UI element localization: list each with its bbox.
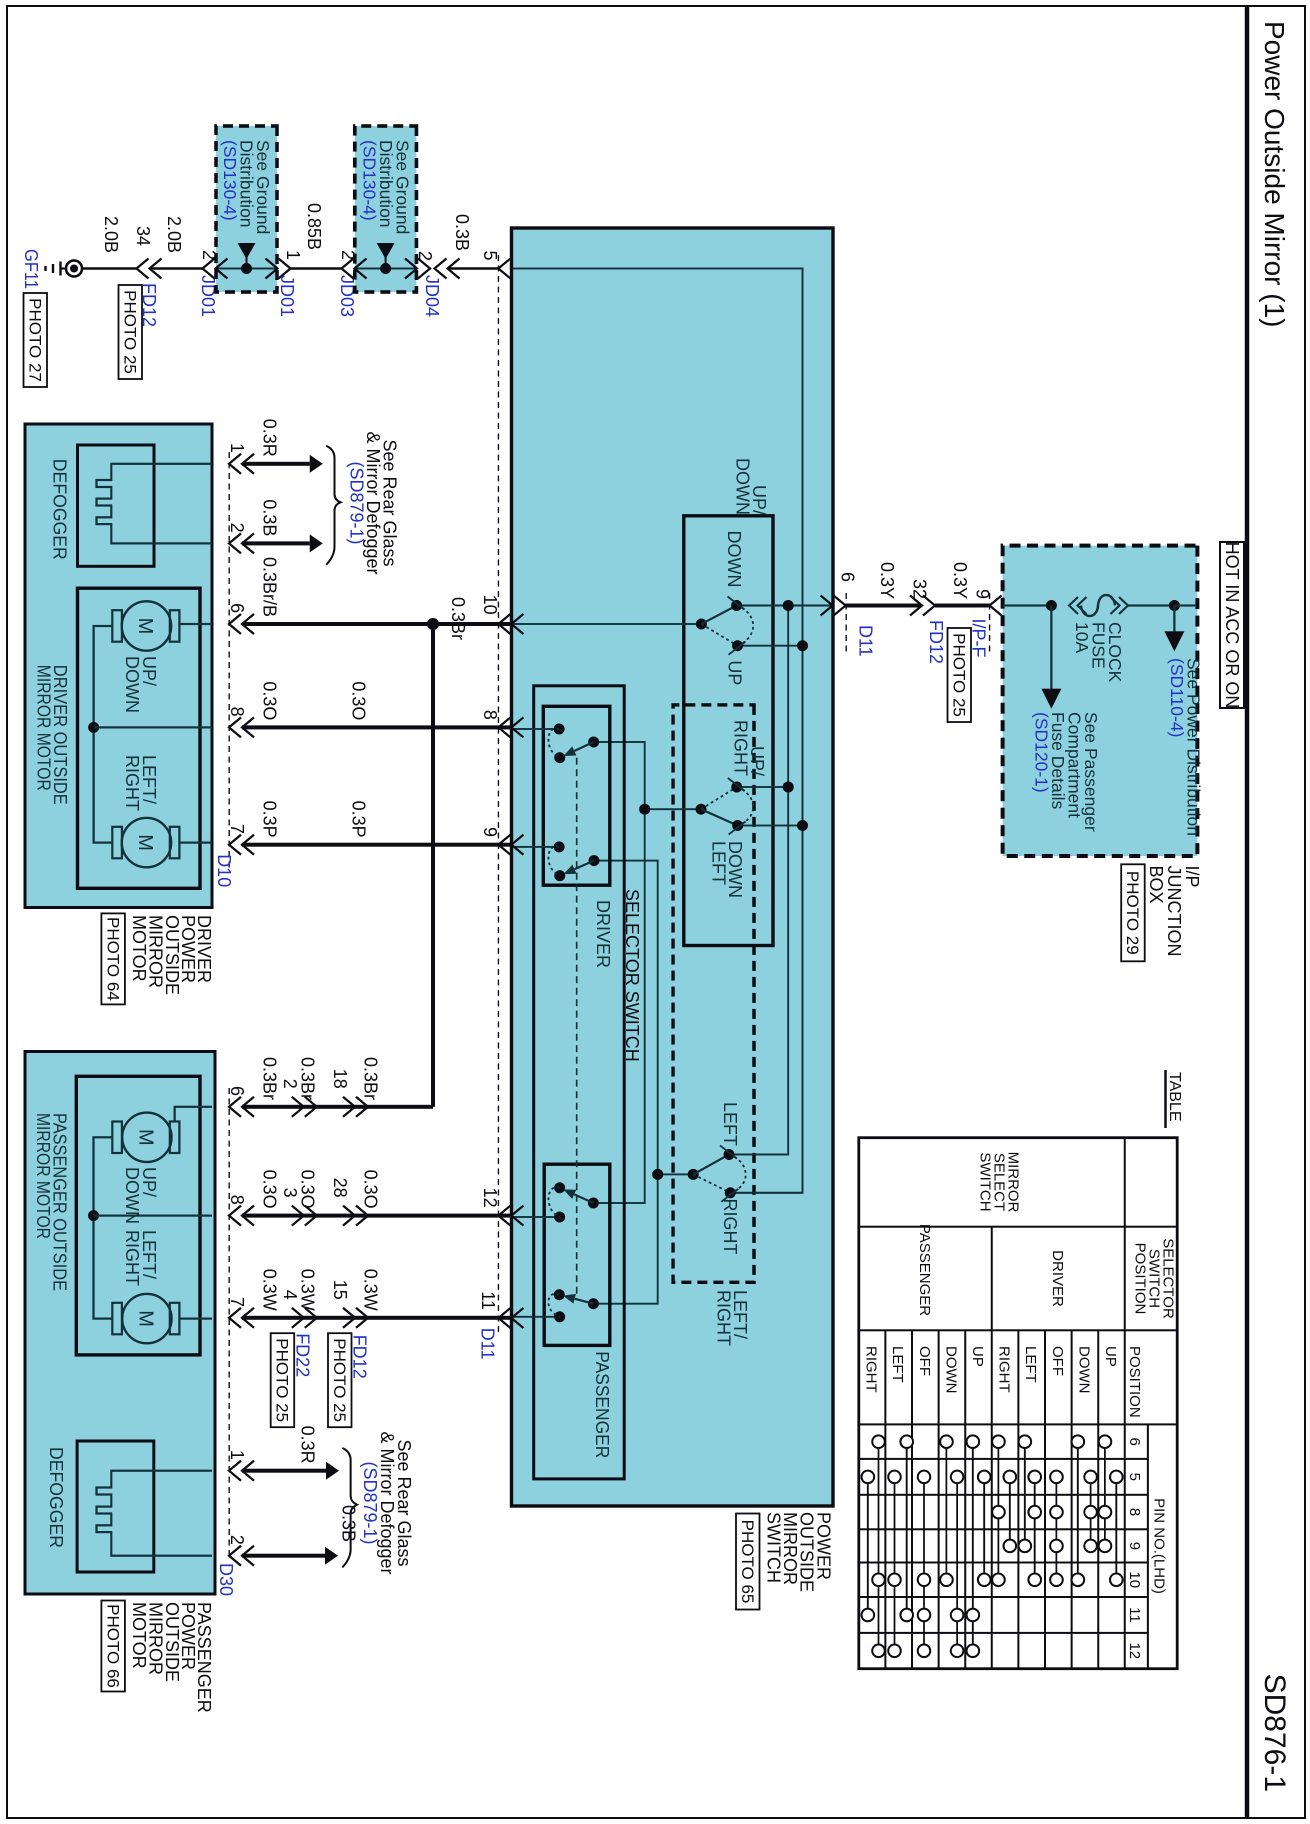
svg-text:PHOTO 25: PHOTO 25 (330, 1338, 349, 1422)
svg-text:D11: D11 (855, 625, 875, 657)
S3 blade solid to LEFT (693, 1155, 729, 1175)
UP contact (732, 640, 743, 651)
DRIVER selector box (543, 706, 610, 885)
svg-text:LEFT: LEFT (720, 1102, 740, 1146)
svg-text:RIGHT: RIGHT (122, 1230, 142, 1286)
svg-text:RIGHT: RIGHT (996, 1346, 1013, 1393)
svg-text:0.3Br/B: 0.3Br/B (260, 557, 280, 617)
svg-text:12: 12 (1126, 1642, 1143, 1659)
passenger left/right motor M (122, 1294, 171, 1343)
svg-text:0.3W: 0.3W (361, 1269, 381, 1311)
label box PHOTO 64 (driver motor) (101, 913, 125, 1004)
svg-text:6: 6 (837, 572, 857, 582)
S3 pole riser to rail B (658, 1173, 694, 1175)
switch pin 9 chevrons (498, 835, 523, 855)
svg-text:Power Outside Mirror (1): Power Outside Mirror (1) (1259, 21, 1290, 328)
svg-text:2.0B: 2.0B (101, 216, 121, 253)
S2 blade solid (701, 809, 738, 825)
wire 0.3Br/B driver pin 6 to junction (242, 622, 433, 626)
svg-text:34: 34 (133, 226, 153, 246)
dashed line at I/P-F pin (989, 593, 991, 655)
svg-text:FD12: FD12 (926, 620, 946, 664)
passenger motor common wire (94, 1137, 113, 1318)
label box PHOTO 25 (FD12 ground chain) (119, 285, 143, 379)
svg-text:See Rear Glass: See Rear Glass (394, 1439, 414, 1566)
svg-text:2: 2 (227, 523, 247, 533)
svg-text:2: 2 (415, 251, 435, 261)
svg-text:LEFT/: LEFT/ (139, 755, 159, 804)
dashed connector face (passenger motor) (228, 1088, 230, 1558)
JD03 arrow to junction (377, 243, 395, 259)
wire 0.3O passenger pin 8 to switch pin 12 (242, 1214, 511, 1218)
FD22 connector pin 3 (292, 1206, 317, 1226)
JD01 pin 1 chevrons (top edge) (266, 259, 291, 279)
UP/DOWN switch pole (696, 619, 707, 630)
svg-text:OFF: OFF (916, 1346, 933, 1376)
svg-text:HOT IN ACC OR ON: HOT IN ACC OR ON (1222, 542, 1242, 709)
passenger selector group2 wire to pin 11 (513, 1316, 560, 1318)
UP/DOWN dotted blade to UP (701, 624, 737, 646)
switch pin 6 chevrons (top) (821, 596, 846, 616)
wire 0.3R passenger defogger pin 1 (242, 1469, 326, 1473)
wire 0.3W passenger pin 7 to switch pin 11 (242, 1316, 511, 1320)
svg-text:LEFT: LEFT (1022, 1346, 1039, 1383)
JD01 arrow to junction (238, 243, 256, 259)
passenger motor pin 8 chevrons (229, 1206, 254, 1226)
wire 0.3Y FD12 to I/P-F (935, 604, 990, 608)
arrow line see passenger compartment (1050, 606, 1052, 693)
svg-text:TABLE: TABLE (1166, 1072, 1183, 1122)
svg-text:0.3O: 0.3O (298, 1170, 318, 1209)
passenger motor box (76, 1076, 200, 1355)
arrow line see power distribution (1173, 606, 1175, 636)
svg-text:15: 15 (330, 1280, 350, 1300)
junction dot S2 pole x rail A (639, 804, 650, 815)
svg-text:0.3P: 0.3P (348, 801, 368, 838)
svg-text:PHOTO 66: PHOTO 66 (103, 1604, 122, 1688)
driver up/down motor M (122, 601, 171, 650)
brace see rear glass (driver) (326, 446, 340, 565)
svg-text:1: 1 (227, 1450, 247, 1460)
svg-text:D11: D11 (478, 1328, 498, 1360)
junction dot to fuse details arrow (1046, 600, 1057, 611)
svg-text:8: 8 (1126, 1508, 1143, 1516)
driver selector group1 contacts and blade (554, 724, 565, 735)
passenger defogger pin 1 chevrons (229, 1461, 254, 1481)
svg-text:0.3Br: 0.3Br (298, 1057, 318, 1100)
S2 pole (696, 804, 707, 815)
I/P box internal wire from pin 9 (1003, 604, 1052, 606)
label box PHOTO 29 (1121, 864, 1145, 961)
driver selector group2 wire to pin 9 (513, 846, 559, 848)
joint connector JD03 box (355, 126, 417, 292)
driver motor box (78, 588, 201, 888)
svg-text:2.0B: 2.0B (164, 216, 184, 253)
driver pin 7 internal wire (179, 841, 212, 843)
svg-text:JUNCTION: JUNCTION (1164, 866, 1184, 957)
passenger up/down motor M (122, 1113, 171, 1162)
svg-text:M: M (134, 834, 156, 851)
svg-text:PHOTO 65: PHOTO 65 (738, 1520, 757, 1604)
svg-text:JD01: JD01 (198, 275, 218, 317)
label box HOT IN ACC OR ON (1220, 542, 1244, 708)
FD12 connector pin 28 (343, 1206, 368, 1226)
driver defogger pin 2 chevrons (229, 533, 254, 553)
svg-text:JD01: JD01 (277, 275, 297, 317)
driver motor junction dot (88, 722, 99, 733)
rail from pin 6 (power rail) (730, 606, 788, 1155)
passenger motor junction dot (88, 1210, 99, 1221)
svg-text:PASSENGER: PASSENGER (916, 1224, 933, 1316)
passenger selector group1 wire to pin 12 (513, 1216, 560, 1218)
passenger selector group2 contacts and blade (554, 1289, 565, 1300)
S3 travel arc (729, 1155, 746, 1193)
junction dot S2 left-contact x ground rail (797, 820, 808, 831)
SELECTOR SWITCH outer box (534, 686, 625, 1479)
driver selector group2 contacts and blade (554, 841, 565, 852)
pin 10 riser to UP/DOWN pole (513, 623, 701, 625)
svg-text:(SD130-4): (SD130-4) (360, 140, 380, 221)
svg-text:DOWN: DOWN (942, 1346, 959, 1394)
wire 0.3Br passenger pin 6 (242, 1105, 433, 1109)
table column line C2/C3 (859, 1329, 1177, 1331)
svg-text:0.3Y: 0.3Y (877, 562, 897, 599)
svg-text:PASSENGER: PASSENGER (592, 1351, 612, 1458)
svg-text:DOWN: DOWN (1075, 1346, 1092, 1394)
svg-text:POSITION: POSITION (1126, 1346, 1143, 1418)
label box PHOTO 25 (FD12 passenger) (328, 1333, 352, 1427)
junction dot pin6 x power rail (783, 600, 794, 611)
junction dot UP riser x ground rail (797, 640, 808, 651)
switch pin 12 chevrons (498, 1206, 523, 1226)
connector JD04 on ground chain (435, 259, 460, 279)
switch pin 11 chevrons (498, 1308, 523, 1328)
dashed connector face (driver motor) (228, 452, 230, 868)
svg-text:0.3W: 0.3W (298, 1269, 318, 1311)
svg-text:M: M (134, 1129, 156, 1146)
svg-text:9: 9 (1126, 1542, 1143, 1550)
DRIVER OUTSIDE MIRROR MOTOR cyan box (25, 424, 212, 908)
svg-text:6: 6 (1126, 1437, 1143, 1445)
JD03 pin 2 chevrons (bottom edge) (342, 259, 367, 279)
wire 0.3Y switch pin 6 to FD12 (845, 604, 922, 608)
svg-text:0.3R: 0.3R (298, 1426, 318, 1464)
table pin no header line (1147, 1424, 1149, 1668)
svg-text:FD12: FD12 (350, 1335, 370, 1379)
wire 0.3B JD04 to switch pin 5 (448, 267, 499, 270)
ground symbol GF11 (66, 261, 82, 277)
svg-text:D30: D30 (216, 1563, 236, 1596)
label box PHOTO 66 (101, 1601, 125, 1692)
svg-text:DRIVER: DRIVER (593, 900, 613, 968)
label box PHOTO 25 (FD12 power) (948, 628, 972, 722)
svg-text:DEFOGGER: DEFOGGER (49, 459, 69, 560)
rail A (left/right pole rail) (595, 742, 645, 1203)
svg-text:PHOTO 25: PHOTO 25 (121, 290, 140, 374)
svg-text:LEFT: LEFT (889, 1346, 906, 1383)
svg-text:7: 7 (227, 1297, 247, 1307)
label box PHOTO 65 (736, 1514, 760, 1610)
svg-text:I/P-F: I/P-F (969, 619, 989, 658)
passenger defogger element (97, 1471, 213, 1556)
svg-text:POSITION: POSITION (1132, 1243, 1149, 1315)
svg-text:DOWN: DOWN (122, 656, 142, 713)
svg-text:10: 10 (1126, 1571, 1143, 1588)
mirror select switch table frame (859, 1138, 1177, 1669)
S2 pole riser to rail A (645, 808, 701, 810)
svg-text:11: 11 (478, 1291, 498, 1310)
svg-text:6: 6 (227, 603, 247, 613)
table pin area left line (859, 1423, 1177, 1425)
svg-text:RIGHT: RIGHT (720, 1199, 740, 1255)
svg-text:0.3B: 0.3B (338, 1505, 358, 1542)
I/P box wire to power distribution junction (1128, 604, 1174, 606)
PASSENGER selector box (544, 1164, 610, 1345)
svg-text:(SD120-1): (SD120-1) (1032, 712, 1052, 793)
driver motor common wire (94, 626, 113, 843)
svg-text:I/P: I/P (1182, 866, 1202, 888)
svg-text:0.3Br: 0.3Br (448, 597, 468, 640)
svg-text:GF11: GF11 (21, 249, 41, 289)
wire 0.3P driver pin 7 to switch pin 9 (242, 843, 511, 847)
FD22 connector pin 4 (292, 1308, 317, 1328)
svg-text:10A: 10A (1072, 622, 1092, 653)
svg-text:11: 11 (1126, 1607, 1143, 1623)
svg-text:0.3O: 0.3O (361, 1170, 381, 1209)
rail from pin 5 (ground rail) (513, 269, 803, 1193)
svg-text:DRIVER: DRIVER (1049, 1250, 1066, 1307)
switch pin 8 chevrons (498, 717, 523, 737)
svg-text:LEFT: LEFT (709, 841, 729, 885)
JD03 top edge chevrons (405, 259, 430, 279)
driver DEFOGGER sub-box (78, 445, 155, 566)
JD01 internal wire and junction dot (216, 268, 277, 270)
driver defogger pin 1 chevrons (229, 454, 254, 474)
svg-text:1: 1 (227, 443, 247, 453)
svg-text:D10: D10 (214, 854, 234, 887)
table column line C1/C2 (859, 1226, 1177, 1228)
junction dot S2 right-contact x power rail (783, 782, 794, 793)
label box PHOTO 27 (24, 293, 48, 387)
S2 DOWN-LEFT contact riser (738, 825, 803, 827)
wire 2.0B to JD01 (150, 267, 203, 270)
POWER OUTSIDE MIRROR SWITCH box (512, 228, 834, 1506)
svg-text:0.3O: 0.3O (348, 681, 368, 720)
svg-text:0.3R: 0.3R (260, 419, 280, 457)
svg-text:8: 8 (480, 710, 500, 720)
rail B (second pole rail) (595, 861, 658, 1304)
JD01 pin 2 chevrons (bottom edge) (203, 259, 228, 279)
svg-text:UP: UP (1102, 1346, 1119, 1367)
driver left/right motor M (122, 818, 171, 867)
junction dot S3 pole x rail B (652, 1169, 663, 1180)
svg-text:0.3O: 0.3O (260, 1170, 280, 1209)
UP contact riser (738, 645, 803, 647)
passenger pin 8 internal wire (94, 1214, 213, 1216)
FD12 connector pin 32 (910, 596, 935, 616)
S3 pole (688, 1169, 699, 1180)
driver motor pin 8 chevrons (229, 717, 254, 737)
svg-text:0.3Y: 0.3Y (950, 562, 970, 599)
svg-text:0.85B: 0.85B (304, 203, 324, 250)
table pin column lines (859, 1458, 1148, 1460)
svg-text:0.3Br: 0.3Br (361, 1057, 381, 1100)
S3 dotted blade to RIGHT (693, 1174, 730, 1192)
svg-text:PHOTO 25: PHOTO 25 (950, 633, 969, 717)
S3 RIGHT contact riser (730, 1192, 802, 1194)
svg-text:M: M (134, 1310, 156, 1327)
svg-text:DOWN: DOWN (724, 531, 744, 588)
driver defogger element (97, 464, 213, 544)
svg-text:MOTOR: MOTOR (129, 915, 149, 982)
fuse-side chevrons above fuse (1111, 597, 1129, 614)
connector FD12 (pin 34) on ground chain (137, 259, 162, 279)
wire driver pin6 junction to switch pin 10 (433, 622, 511, 626)
driver pin 8 internal wire (94, 726, 212, 728)
svg-text:9: 9 (480, 827, 500, 837)
svg-text:MIRROR MOTOR: MIRROR MOTOR (33, 1113, 53, 1239)
svg-text:DOWN: DOWN (733, 458, 753, 515)
passenger DEFOGGER sub-box (77, 1441, 154, 1572)
svg-text:(SD879-1): (SD879-1) (360, 1461, 380, 1544)
svg-text:RIGHT: RIGHT (122, 755, 142, 811)
wire 0.85B JD01 to JD03 (290, 267, 342, 270)
I/P-F pin 9 chevrons (990, 596, 1015, 616)
svg-text:10: 10 (480, 595, 500, 615)
svg-text:(SD130-4): (SD130-4) (220, 140, 240, 221)
svg-text:MIRROR MOTOR: MIRROR MOTOR (34, 665, 54, 791)
driver motor pin 7 chevrons (229, 835, 254, 855)
junction dot to power distribution (1169, 600, 1180, 611)
title separator rule (1245, 6, 1250, 1818)
svg-text:SD876-1: SD876-1 (1258, 1674, 1291, 1792)
S3 contacts (724, 1149, 735, 1160)
svg-text:7: 7 (227, 824, 247, 834)
S2 travel arc (737, 787, 753, 826)
svg-text:(SD110-4): (SD110-4) (1167, 658, 1187, 737)
svg-text:9: 9 (973, 589, 993, 599)
svg-text:PHOTO 29: PHOTO 29 (1123, 871, 1142, 955)
svg-text:28: 28 (330, 1178, 350, 1198)
svg-text:0.3Br: 0.3Br (260, 1057, 280, 1100)
svg-text:FD22: FD22 (293, 1333, 313, 1377)
svg-text:RIGHT: RIGHT (731, 720, 751, 776)
svg-text:6: 6 (227, 1086, 247, 1096)
passenger motor pin 6 chevrons (229, 1097, 254, 1117)
JD03 internal wire and junction dot (355, 268, 417, 270)
svg-text:UP: UP (724, 660, 744, 685)
svg-text:SWITCH: SWITCH (764, 1512, 784, 1583)
svg-text:5: 5 (1126, 1473, 1143, 1481)
svg-text:2: 2 (227, 1535, 247, 1545)
svg-text:PHOTO 25: PHOTO 25 (273, 1338, 292, 1422)
table header row line (1124, 1138, 1126, 1669)
label box PHOTO 25 (FD22) (271, 1333, 295, 1427)
FD12 connector pin 18 (343, 1097, 368, 1117)
svg-text:(SD879-1): (SD879-1) (347, 461, 367, 544)
svg-text:DEFOGGER: DEFOGGER (46, 1447, 66, 1548)
wire 0.3Br cross link to passenger (431, 624, 435, 1107)
svg-text:PHOTO 27: PHOTO 27 (26, 298, 45, 382)
svg-text:LEFT/: LEFT/ (139, 1230, 159, 1279)
brace see rear glass (passenger) (342, 1448, 357, 1567)
svg-text:8: 8 (227, 707, 247, 717)
S3 LEFT contact riser (729, 1154, 788, 1156)
passenger motor pin 7 chevrons (229, 1308, 254, 1328)
svg-text:UP/: UP/ (139, 656, 159, 686)
table contact circles and links (1104, 1442, 1106, 1546)
svg-text:12: 12 (480, 1188, 500, 1208)
svg-text:PHOTO 64: PHOTO 64 (103, 917, 122, 1001)
pin 6 wire into DOWN contact (737, 604, 831, 606)
dashed connector face line below switch box (497, 255, 499, 1335)
UP/DOWN travel arc (737, 606, 754, 646)
svg-text:SWITCH: SWITCH (976, 1152, 993, 1211)
svg-text:MOTOR: MOTOR (129, 1602, 149, 1669)
svg-text:RIGHT: RIGHT (863, 1346, 880, 1393)
svg-text:0.3W: 0.3W (260, 1269, 280, 1311)
svg-text:0.3B: 0.3B (260, 499, 280, 536)
svg-text:BOX: BOX (1146, 866, 1166, 904)
svg-text:18: 18 (330, 1069, 350, 1089)
svg-text:UP/: UP/ (139, 1167, 159, 1197)
dashed connector face line above switch pin 6 (845, 593, 847, 655)
mechanical link dashed line (576, 758, 578, 1295)
wire 0.3O driver pin 8 to switch pin 8 (242, 725, 511, 729)
UP/DOWN switch sub-box (684, 516, 773, 946)
svg-text:5: 5 (480, 250, 500, 260)
CLOCK FUSE 10A symbol (1081, 595, 1115, 616)
S2 UP-RIGHT contact riser (737, 786, 788, 788)
S2 contacts (731, 782, 742, 793)
LEFT/RIGHT dashed sub-box (673, 705, 754, 1282)
driver selector group1 wire to pin 8 (513, 728, 559, 730)
svg-text:1: 1 (283, 250, 303, 260)
svg-text:UP: UP (969, 1346, 986, 1367)
FD12 connector pin 15 (343, 1308, 368, 1328)
driver motor pin 6 chevrons (229, 614, 254, 634)
switch pin 5 chevrons (498, 259, 523, 279)
wire 0.3R driver defogger pin 1 (242, 462, 310, 466)
DOWN contact (731, 600, 742, 611)
UP/DOWN blade (solid to DOWN) (701, 606, 736, 625)
wire 0.3B driver defogger pin 2 (242, 541, 310, 545)
I/P JUNCTION BOX dashed box (1003, 546, 1198, 856)
wire 2.0B ground chain (83, 267, 137, 270)
joint connector JD01 box (216, 126, 277, 292)
passenger defogger pin 2 chevrons (229, 1546, 254, 1566)
svg-text:OFF: OFF (1049, 1346, 1066, 1376)
svg-text:0.3P: 0.3P (260, 801, 280, 838)
svg-text:SELECTOR SWITCH: SELECTOR SWITCH (622, 889, 642, 1062)
svg-text:8: 8 (227, 1195, 247, 1205)
passenger pin 6 internal wire (175, 1107, 212, 1122)
svg-text:JD04: JD04 (422, 275, 442, 317)
svg-text:JD03: JD03 (337, 275, 357, 317)
FD22 connector pin 2 (292, 1097, 317, 1117)
table row lines (1097, 1330, 1099, 1668)
svg-text:& Mirror Defogger: & Mirror Defogger (377, 1431, 397, 1574)
fuse-side chevrons below fuse (1069, 597, 1087, 614)
switch pin 10 chevrons (498, 614, 523, 634)
junction dot 0.3Br (427, 618, 439, 630)
svg-text:32: 32 (910, 579, 930, 599)
driver pin 6 internal wire (179, 623, 212, 625)
svg-text:0.3O: 0.3O (260, 681, 280, 720)
wire 0.3B passenger defogger pin 2 (242, 1554, 325, 1558)
svg-text:PIN NO.(LHD): PIN NO.(LHD) (1151, 1498, 1168, 1594)
svg-text:M: M (134, 618, 156, 635)
